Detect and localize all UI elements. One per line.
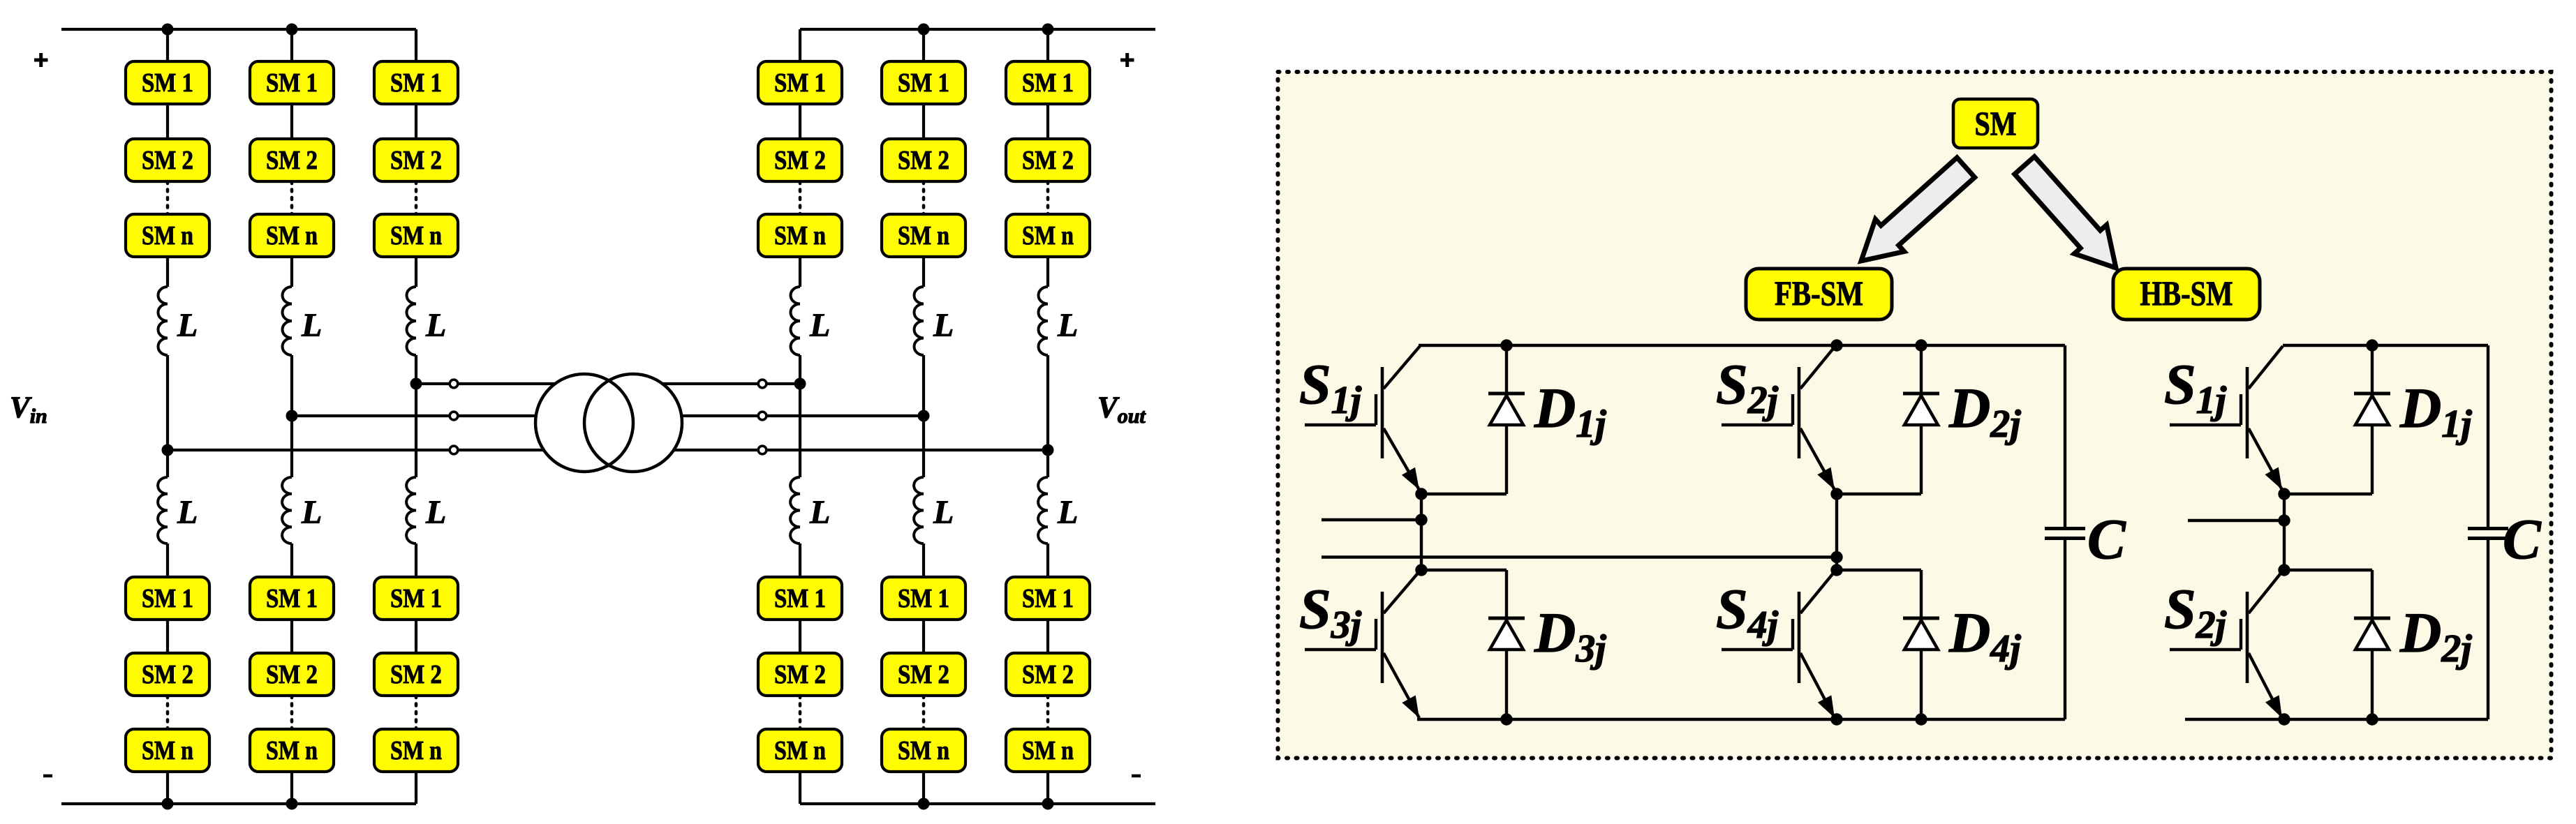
wire: input phase-leg 3 vertical column	[415, 29, 417, 61]
svg-text:SM n: SM n	[390, 221, 442, 250]
submodule SM 1 upper arm input leg 3	[374, 61, 458, 104]
diode D2j	[1920, 345, 1923, 394]
svg-text:L: L	[177, 494, 198, 531]
svg-text:SM n: SM n	[142, 221, 193, 250]
svg-text:SM 2: SM 2	[142, 146, 193, 175]
submodule SM 2 lower arm output leg 2	[882, 653, 965, 696]
transistor S1j (IGBT)	[1381, 367, 1384, 458]
inductor L upper arm output leg 1	[790, 287, 800, 355]
terminal: secondary phase b open circle	[758, 412, 767, 420]
diode D3j	[1505, 570, 1508, 618]
svg-text:SM 1: SM 1	[390, 584, 442, 613]
wire: dashed continuation upper arm output leg 1	[799, 181, 802, 214]
submodule SM 1 upper arm output leg 3	[1006, 61, 1090, 104]
node: phase junction on column x=418	[286, 410, 298, 422]
svg-text:SM 2: SM 2	[266, 660, 318, 689]
svg-text:SM 2: SM 2	[1022, 146, 1074, 175]
svg-text:SM n: SM n	[898, 221, 949, 250]
wire: AC phase c line	[168, 449, 1048, 451]
svg-text:L: L	[301, 307, 322, 344]
svg-text:SM 2: SM 2	[774, 146, 826, 175]
inductor L lower arm input leg 3	[406, 477, 416, 544]
submodule SM 1 lower arm input leg 2	[250, 577, 334, 620]
svg-text:SM: SM	[1975, 105, 2017, 143]
submodule SM 2 lower arm input leg 1	[126, 653, 209, 696]
label: plus terminal input	[34, 59, 48, 62]
junction dots on output positive rail	[918, 24, 930, 36]
svg-text:SM n: SM n	[774, 736, 826, 765]
wire: input DC positive rail	[61, 28, 416, 31]
svg-text:SM 1: SM 1	[266, 584, 318, 613]
wire: dashed continuation lower arm output leg 3	[1046, 696, 1050, 729]
svg-text:SM 1: SM 1	[898, 584, 949, 613]
svg-text:SM n: SM n	[142, 736, 193, 765]
arrow: SM to HB-SM	[2015, 156, 2116, 268]
submodule SM 1 lower arm output leg 1	[758, 577, 842, 620]
svg-text:SM n: SM n	[390, 736, 442, 765]
wire: dashed continuation lower arm input leg 1	[166, 696, 170, 729]
transistor S2j (IGBT)	[1798, 367, 1801, 458]
inductor L lower arm output leg 3	[1038, 477, 1048, 544]
submodule SM n lower arm input leg 2	[250, 729, 334, 772]
submodule SM 2 lower arm input leg 3	[374, 653, 458, 696]
submodule SM 2 upper arm input leg 3	[374, 139, 458, 181]
wire: dashed continuation lower arm input leg 2	[290, 696, 294, 729]
wire: dashed continuation upper arm input leg 3	[415, 181, 418, 214]
node: phase junction on column x=1146	[794, 378, 806, 390]
wire: HB-SM DC- rail	[2185, 718, 2488, 721]
svg-text:L: L	[809, 494, 830, 531]
wire: midpoint vertical of leg S1j/S2j	[2283, 494, 2286, 570]
svg-text:SM n: SM n	[1022, 736, 1074, 765]
wire: dashed continuation upper arm output leg 2	[922, 181, 926, 214]
svg-text:SM n: SM n	[898, 736, 949, 765]
submodule SM 1 upper arm input leg 2	[250, 61, 334, 104]
label: minus terminal input	[43, 774, 52, 778]
transformer T1 primary outline	[535, 374, 633, 472]
svg-text:SM 1: SM 1	[266, 68, 318, 98]
transistor S3j (IGBT)	[1381, 592, 1384, 683]
wire: dashed continuation lower arm input leg 3	[415, 696, 418, 729]
svg-text:SM n: SM n	[266, 736, 318, 765]
svg-text:C: C	[2087, 507, 2126, 571]
svg-text:SM 2: SM 2	[898, 660, 949, 689]
inductor L lower arm output leg 1	[790, 477, 800, 544]
submodule SM n upper arm input leg 1	[126, 214, 209, 257]
submodule SM 1 upper arm output leg 1	[758, 61, 842, 104]
svg-text:SM 2: SM 2	[390, 146, 442, 175]
submodule SM n upper arm output leg 2	[882, 214, 965, 257]
diode D1j	[1505, 345, 1508, 394]
submodule SM n lower arm output leg 3	[1006, 729, 1090, 772]
submodule SM n lower arm output leg 1	[758, 729, 842, 772]
wire: FB-SM terminal stub 2 (to right leg midpoint)	[1322, 555, 1837, 558]
wire: dashed continuation upper arm input leg 2	[290, 181, 294, 214]
inductor L lower arm output leg 2	[914, 477, 924, 544]
submodule SM 2 lower arm output leg 3	[1006, 653, 1090, 696]
node: midpoint junction dots leg S2j/S4j	[1830, 488, 1842, 500]
svg-text:SM n: SM n	[1022, 221, 1074, 250]
wire: emitter junction to diode D1j anode	[1421, 493, 1507, 495]
submodule SM 1 lower arm input leg 3	[374, 577, 458, 620]
submodule SM 2 upper arm output leg 2	[882, 139, 965, 181]
wire: dashed continuation lower arm output leg 1	[799, 696, 802, 729]
capacitor C of HB-SM	[2487, 345, 2489, 527]
submodule SM 2 upper arm input leg 2	[250, 139, 334, 181]
inductor L lower arm input leg 2	[282, 477, 292, 544]
wire: dashed continuation upper arm input leg 1	[166, 181, 170, 214]
svg-text:Vout: Vout	[1097, 391, 1146, 428]
wire: collector junction to diode D2j cathode	[2284, 569, 2372, 571]
inductor L upper arm output leg 3	[1038, 287, 1048, 355]
submodule SM 2 upper arm output leg 1	[758, 139, 842, 181]
terminal: secondary phase c open circle	[758, 446, 767, 454]
node: phase junction on column x=1323	[918, 410, 930, 422]
junction dots on input negative rail	[162, 798, 174, 810]
svg-text:L: L	[425, 494, 446, 531]
inductor L upper arm input leg 2	[282, 287, 292, 355]
svg-text:SM 1: SM 1	[774, 68, 826, 98]
svg-text:SM 2: SM 2	[390, 660, 442, 689]
terminal: secondary phase a open circle	[758, 380, 767, 388]
wire: output DC negative rail	[800, 802, 1155, 805]
terminal: primary phase c open circle	[450, 446, 458, 454]
wire: HB-SM DC+ rail	[2283, 344, 2488, 347]
node: FB rail junction dots	[1500, 339, 1512, 351]
wire: output phase-leg 1 vertical column	[799, 29, 801, 61]
transistor S4j (IGBT)	[1798, 592, 1801, 683]
svg-text:SM n: SM n	[774, 221, 826, 250]
submodule SM 1 lower arm output leg 3	[1006, 577, 1090, 620]
svg-text:SM 1: SM 1	[390, 68, 442, 98]
submodule SM n lower arm output leg 2	[882, 729, 965, 772]
svg-text:SM 1: SM 1	[1022, 584, 1074, 613]
submodule SM 1 upper arm output leg 2	[882, 61, 965, 104]
svg-text:SM n: SM n	[266, 221, 318, 250]
inductor L lower arm input leg 1	[158, 477, 168, 544]
svg-text:SM 2: SM 2	[898, 146, 949, 175]
svg-text:SM 2: SM 2	[774, 660, 826, 689]
svg-text:L: L	[1057, 494, 1078, 531]
transformer T1 secondary winding circle	[584, 374, 682, 472]
diode D4j	[1920, 570, 1923, 618]
transformer T1 secondary outline	[584, 374, 682, 472]
node: stub1 junction	[1415, 514, 1427, 525]
svg-text:FB-SM: FB-SM	[1775, 274, 1863, 313]
svg-text:SM 2: SM 2	[266, 146, 318, 175]
node: phase junction on column x=240	[162, 444, 174, 456]
transformer T1 primary winding circle	[535, 374, 633, 472]
wire: emitter junction to diode D1j anode	[2284, 493, 2372, 495]
node: stub2 junction	[1830, 551, 1842, 563]
junction dots on input positive rail	[162, 24, 174, 36]
svg-text:SM 1: SM 1	[898, 68, 949, 98]
block: FB-SM label box	[1746, 269, 1892, 320]
wire: HB-SM terminal stub (to leg midpoint)	[2188, 519, 2284, 522]
submodule SM n upper arm input leg 3	[374, 214, 458, 257]
submodule SM 1 lower arm output leg 2	[882, 577, 965, 620]
svg-text:SM 1: SM 1	[1022, 68, 1074, 98]
junction dots on output negative rail	[918, 798, 930, 810]
svg-text:L: L	[1057, 307, 1078, 344]
svg-text:SM 2: SM 2	[142, 660, 193, 689]
panel: submodule detail box (dotted border, cream background)	[1278, 72, 2552, 758]
node: HB stub junction	[2278, 514, 2290, 526]
terminal: primary phase b open circle	[450, 412, 458, 420]
wire: FB-SM DC+ rail	[1419, 344, 2065, 347]
wire: AC phase a line	[416, 382, 800, 385]
wire: FB-SM terminal stub 1 (to left leg midpoint)	[1322, 518, 1421, 521]
node: midpoint junction dots leg S1j/S3j	[1415, 488, 1427, 500]
inductor L upper arm output leg 2	[914, 287, 924, 355]
svg-text:SM 2: SM 2	[1022, 660, 1074, 689]
submodule SM 2 upper arm input leg 1	[126, 139, 209, 181]
wire: input DC negative rail	[61, 802, 416, 805]
block: HB-SM label box	[2113, 269, 2260, 320]
svg-text:L: L	[933, 307, 954, 344]
submodule SM n lower arm input leg 3	[374, 729, 458, 772]
svg-text:HB-SM: HB-SM	[2140, 274, 2233, 313]
wire: output phase-leg 2 vertical column	[922, 29, 925, 61]
wire: input phase-leg 2 vertical column	[290, 29, 293, 61]
inductor L upper arm input leg 1	[158, 287, 168, 355]
svg-text:L: L	[177, 307, 198, 344]
submodule SM n upper arm input leg 2	[250, 214, 334, 257]
submodule SM 2 lower arm output leg 1	[758, 653, 842, 696]
node: HB rail junction dots	[2366, 339, 2378, 351]
submodule SM 1 upper arm input leg 1	[126, 61, 209, 104]
arrow: SM to FB-SM	[1861, 158, 1975, 261]
wire: output phase-leg 3 vertical column	[1046, 29, 1049, 61]
wire: AC phase b line	[292, 414, 924, 417]
node: midpoint junction dots leg S1j/S2j	[2278, 488, 2290, 500]
submodule SM 2 upper arm output leg 3	[1006, 139, 1090, 181]
submodule SM 1 lower arm input leg 1	[126, 577, 209, 620]
node: phase junction on column x=1501	[1042, 444, 1054, 456]
svg-text:SM 1: SM 1	[774, 584, 826, 613]
inductor L upper arm input leg 3	[406, 287, 416, 355]
wire: output DC positive rail	[800, 28, 1155, 31]
svg-text:L: L	[425, 307, 446, 344]
block: SM label box	[1953, 99, 2038, 148]
svg-text:C: C	[2503, 507, 2542, 571]
diode D1j	[2371, 345, 2374, 394]
wire: input phase-leg 1 vertical column	[166, 29, 169, 61]
wire: midpoint vertical of leg S1j/S3j	[1420, 494, 1423, 570]
transistor S2j (IGBT)	[2246, 592, 2249, 683]
svg-text:SM 1: SM 1	[142, 584, 193, 613]
submodule SM n upper arm output leg 3	[1006, 214, 1090, 257]
wire: dashed continuation lower arm output leg 2	[922, 696, 926, 729]
submodule SM n lower arm input leg 1	[126, 729, 209, 772]
wire: emitter junction to diode D2j anode	[1837, 493, 1921, 495]
svg-text:SM 1: SM 1	[142, 68, 193, 98]
submodule SM 2 lower arm input leg 2	[250, 653, 334, 696]
label: plus terminal output	[1120, 59, 1134, 62]
node: phase junction on column x=596	[410, 378, 422, 390]
svg-text:Vin: Vin	[10, 391, 47, 428]
submodule SM n upper arm output leg 1	[758, 214, 842, 257]
wire: dashed continuation upper arm output leg 3	[1046, 181, 1050, 214]
capacitor C of FB-SM	[2064, 345, 2066, 527]
transistor S1j (IGBT)	[2246, 367, 2249, 458]
diode D2j	[2371, 570, 2374, 618]
wire: collector junction to diode D3j cathode	[1421, 569, 1507, 571]
wire: FB-SM DC- rail	[1417, 718, 2065, 721]
svg-text:L: L	[933, 494, 954, 531]
svg-text:L: L	[301, 494, 322, 531]
terminal: primary phase a open circle	[450, 380, 458, 388]
svg-text:L: L	[809, 307, 830, 344]
label: minus terminal output	[1132, 774, 1141, 778]
wire: midpoint vertical of leg S2j/S4j	[1835, 494, 1838, 570]
wire: collector junction to diode D4j cathode	[1837, 569, 1921, 571]
